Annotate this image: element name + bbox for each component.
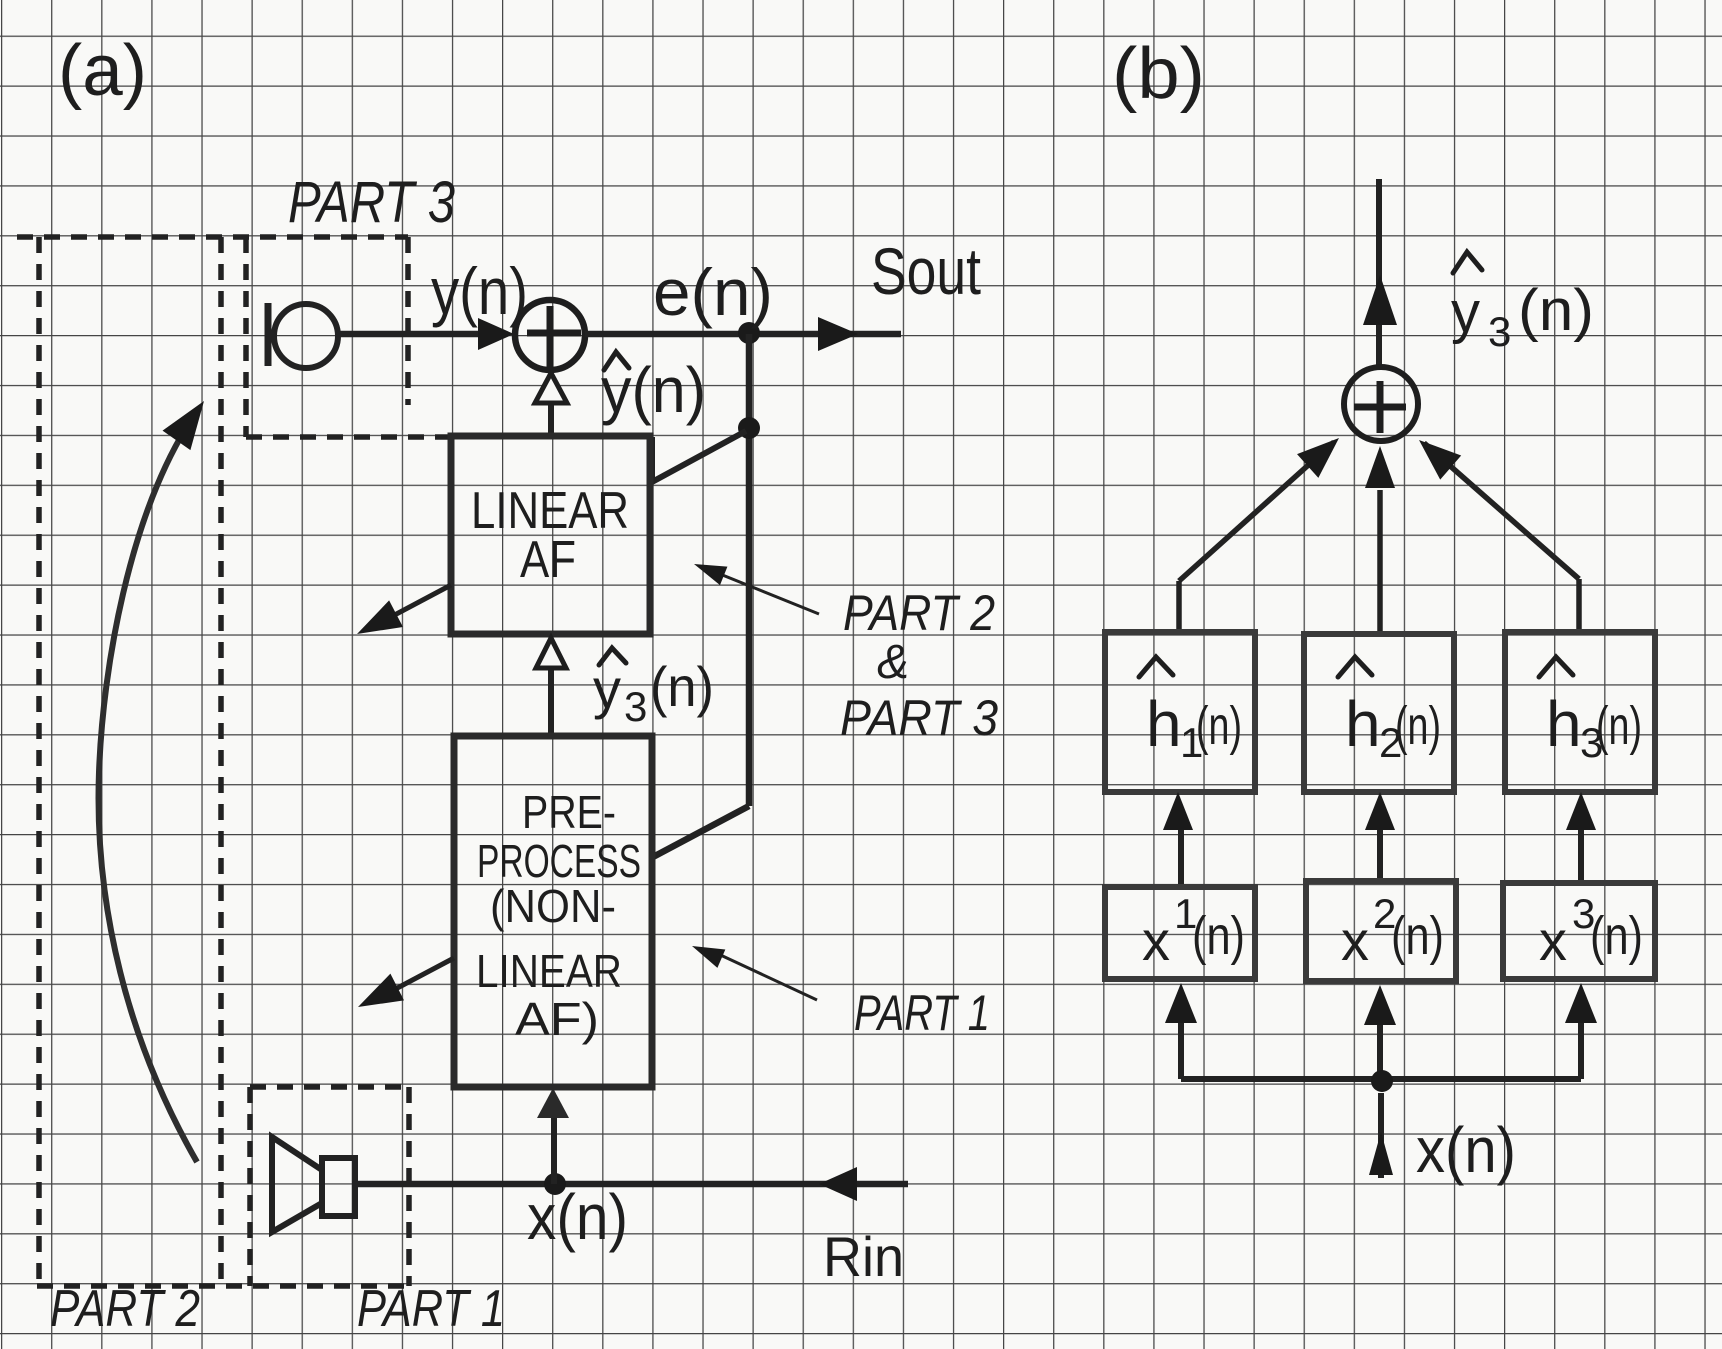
arrowhead open into adder bottom xyxy=(535,373,567,403)
wire x(n) input (b) xyxy=(1378,1093,1384,1178)
svg-text:LINEAR: LINEAR xyxy=(476,945,622,997)
wire x1 to h1 xyxy=(1178,828,1184,887)
wire yhat into adder xyxy=(548,378,554,436)
svg-text:(NON-: (NON- xyxy=(490,880,616,932)
svg-text:x: x xyxy=(1539,909,1567,972)
wire h3 to adder xyxy=(1424,443,1579,632)
block h3(n) xyxy=(1505,632,1655,792)
svg-text:3: 3 xyxy=(1488,308,1511,355)
svg-text:AF): AF) xyxy=(515,993,599,1045)
svg-text:(n): (n) xyxy=(1196,696,1242,756)
svg-text:(n): (n) xyxy=(1395,696,1441,756)
arrowhead into adder xyxy=(478,318,514,350)
arrowhead x(n) input (b) xyxy=(1369,1132,1393,1175)
wire output y3hat (b) xyxy=(1376,179,1382,366)
node junction 2 xyxy=(738,417,760,439)
label yhat(n) xyxy=(604,352,629,370)
node x(n) junction xyxy=(544,1173,566,1195)
svg-text:(n): (n) xyxy=(1391,906,1444,966)
wire y3 into LINEAR AF xyxy=(548,642,554,736)
svg-text:PRE-: PRE- xyxy=(522,786,616,838)
arrow pointer PART2&3 to LINEAR AF xyxy=(710,570,819,614)
wire vertical from e(n) junction xyxy=(746,334,753,806)
arrowhead open into LINEAR AF bottom xyxy=(536,638,566,668)
svg-text:PART 1: PART 1 xyxy=(357,1280,505,1338)
arrowhead into x3 xyxy=(1565,983,1597,1023)
speaker LS xyxy=(272,1137,355,1232)
svg-text:(n): (n) xyxy=(1518,278,1594,343)
svg-text:y(n): y(n) xyxy=(601,354,706,426)
svg-text:&: & xyxy=(877,636,909,689)
block x3(n) xyxy=(1503,883,1655,979)
svg-text:Sout: Sout xyxy=(871,234,981,308)
wire h2 to adder xyxy=(1377,490,1383,634)
wire Rin to speaker xyxy=(355,1181,908,1188)
microphone M xyxy=(268,303,338,368)
svg-text:3: 3 xyxy=(624,683,647,730)
svg-text:x: x xyxy=(1142,909,1170,972)
node e(n) junction xyxy=(738,322,760,344)
svg-text:(b): (b) xyxy=(1112,34,1205,114)
dashed box PART 1 xyxy=(250,1087,409,1286)
node x(n) junction (b) xyxy=(1371,1070,1393,1092)
arrow adaptation from PRE-PROCESS xyxy=(371,958,454,1002)
dashed box PART 3 xyxy=(246,237,449,437)
svg-text:(n): (n) xyxy=(1590,906,1643,966)
arrowhead toward speaker xyxy=(819,1167,857,1201)
arrowhead into x2 xyxy=(1364,985,1396,1025)
svg-text:h: h xyxy=(1546,688,1582,760)
wire link adder vertical to LINEAR AF box xyxy=(652,431,746,482)
svg-text:Rin: Rin xyxy=(823,1225,904,1288)
wire x2 to h2 xyxy=(1377,828,1383,881)
adder node 1 xyxy=(515,300,585,370)
svg-text:PART 2: PART 2 xyxy=(843,585,995,641)
svg-text:h: h xyxy=(1345,688,1381,760)
svg-text:AF: AF xyxy=(520,531,576,589)
dashed box PART 2 xyxy=(17,237,411,1286)
wire adder to Sout xyxy=(585,331,901,338)
block LINEAR AF xyxy=(451,436,650,634)
wire mic to adder xyxy=(338,331,500,338)
svg-text:PART 3: PART 3 xyxy=(288,170,455,235)
wire diagonal into PRE-PROCESS right edge xyxy=(653,806,749,857)
block x2(n) xyxy=(1306,881,1456,981)
arrow adaptation from LINEAR AF xyxy=(370,585,451,628)
svg-text:h: h xyxy=(1146,688,1182,760)
svg-text:x(n): x(n) xyxy=(1416,1114,1516,1186)
block h1(n) xyxy=(1105,632,1255,792)
block x1(n) xyxy=(1105,887,1255,979)
wire x(n) up into PRE-PROCESS xyxy=(551,1118,557,1184)
svg-text:e(n): e(n) xyxy=(653,255,773,329)
adder node 2 (b) xyxy=(1344,367,1418,441)
arrowhead output (b) xyxy=(1363,275,1397,325)
svg-text:(n): (n) xyxy=(1192,906,1245,966)
block PRE-PROCESS (NON-LINEAR AF) xyxy=(454,736,652,1087)
svg-text:PART 2: PART 2 xyxy=(50,1280,200,1338)
arrow pointer PART1 to PRE-PROCESS xyxy=(714,952,817,1000)
svg-text:(n): (n) xyxy=(1596,696,1642,756)
label y3hat(n) xyxy=(599,648,626,665)
arrowhead to Sout xyxy=(818,317,858,351)
arc feedback arrow xyxy=(99,428,197,1162)
wire distribution bus (b) xyxy=(1181,1022,1581,1079)
svg-text:y: y xyxy=(1451,280,1480,345)
svg-text:x(n): x(n) xyxy=(527,1181,628,1253)
wire h1 to adder xyxy=(1179,442,1334,632)
wire x3 to h3 xyxy=(1578,828,1584,883)
svg-text:(a): (a) xyxy=(58,31,147,111)
svg-text:y(n): y(n) xyxy=(431,254,528,328)
arrowhead into x1 xyxy=(1165,983,1197,1023)
block h2(n) xyxy=(1304,634,1454,792)
svg-text:y: y xyxy=(593,657,621,720)
svg-text:x: x xyxy=(1341,909,1369,972)
svg-text:PART 3: PART 3 xyxy=(840,690,998,746)
svg-text:(n): (n) xyxy=(650,655,714,718)
svg-text:PART 1: PART 1 xyxy=(854,985,990,1041)
arrowhead into PRE-PROCESS bottom xyxy=(537,1088,569,1118)
label y3hat(n) (b) xyxy=(1453,252,1482,273)
